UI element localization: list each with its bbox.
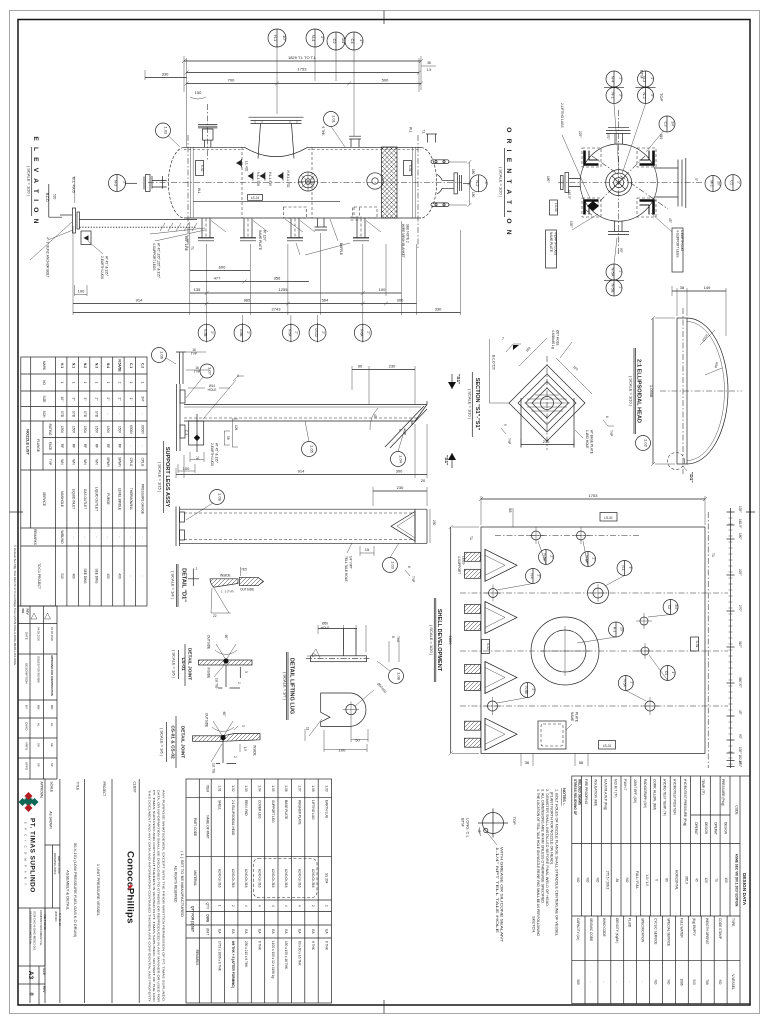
svg-text:NO: NO <box>596 878 600 883</box>
svg-text:1753: 1753 <box>298 67 308 72</box>
svg-text:150 x 150 x 16 THK: 150 x 150 x 16 THK <box>284 941 288 970</box>
svg-text:MANHOLE: MANHOLE <box>60 491 64 507</box>
svg-text:CODE: CODE <box>735 805 739 814</box>
svg-text:1.09: 1.09 <box>324 785 328 791</box>
svg-text:1.5: 1.5 <box>243 568 248 572</box>
balloon N-6A <box>581 552 596 567</box>
svg-text:356: 356 <box>274 276 281 281</box>
svg-text:SUPPORT LEG: SUPPORT LEG <box>271 800 275 823</box>
svg-text:HYDROTEST PRESSURE (Psig): HYDROTEST PRESSURE (Psig) <box>683 779 687 826</box>
svg-text:6 THK: 6 THK <box>258 941 262 951</box>
svg-text:E L E V A T I O N: E L E V A T I O N <box>32 136 39 225</box>
svg-text:2": 2" <box>592 558 596 561</box>
svg-text:N-5A: N-5A <box>622 679 626 687</box>
svg-text:NO: NO <box>586 878 590 883</box>
svg-text:162.5°: 162.5° <box>738 519 742 529</box>
svg-text:270°: 270° <box>738 605 742 612</box>
svg-text:1.08: 1.08 <box>397 672 402 681</box>
svg-text:THERMOWELL: THERMOWELL <box>129 488 133 511</box>
dim 180/180 <box>448 160 471 207</box>
svg-text:1/4" NPT: 1/4" NPT <box>349 556 353 569</box>
svg-text:3": 3" <box>650 94 654 97</box>
part list table <box>186 779 332 1003</box>
svg-text:FIRE PROOFING: FIRE PROOFING <box>584 779 588 805</box>
svg-text:2": 2" <box>321 331 325 334</box>
svg-text:2: 2 <box>233 756 237 758</box>
svg-text:SHELL DEVELOPMENT: SHELL DEVELOPMENT <box>436 609 442 672</box>
svg-text:N-3: N-3 <box>114 180 119 187</box>
svg-text:1.05: 1.05 <box>271 785 275 791</box>
dim 1896 left <box>450 527 452 753</box>
label LS-01 bottom <box>599 741 616 750</box>
svg-text:6: 6 <box>605 416 609 418</box>
svg-text:-: - <box>641 981 645 982</box>
svg-text:1.01: 1.01 <box>332 115 337 124</box>
svg-text:3/4": 3/4" <box>671 121 675 127</box>
svg-text:COVER LEG: COVER LEG <box>258 800 262 819</box>
svg-text:520: 520 <box>53 194 57 200</box>
svg-text:( SCALE = 1/10 ): ( SCALE = 1/10 ) <box>468 389 473 420</box>
balloon 1.01 <box>324 112 339 127</box>
svg-text:LIFTING LUG: LIFTING LUG <box>311 800 315 820</box>
svg-text:510: 510 <box>692 979 696 985</box>
svg-text:6: 6 <box>398 429 402 431</box>
svg-text:H.1: H.1 <box>60 363 64 368</box>
svg-text:CODE STAMP: CODE STAMP <box>718 918 722 939</box>
svg-text:IND-F-20-12: IND-F-20-12 <box>43 914 47 930</box>
svg-text:N-6B: N-6B <box>239 329 243 336</box>
svg-text:ALL RIGHTS RESERVED: ALL RIGHTS RESERVED <box>174 866 178 904</box>
svg-text:45°: 45° <box>668 218 672 224</box>
svg-text:819: 819 <box>659 134 663 140</box>
balloon H-1 <box>609 622 624 637</box>
svg-text:P.W.H.T: P.W.H.T <box>623 779 627 791</box>
label S-02 <box>196 161 204 176</box>
svg-text:SECTION "S1"-"S1": SECTION "S1"-"S1" <box>474 378 480 431</box>
dim 230 lower <box>373 490 427 492</box>
svg-text:1": 1" <box>129 398 133 401</box>
svg-text:-: - <box>106 536 110 537</box>
svg-text:4: 4 <box>271 905 275 907</box>
svg-text:1.09: 1.09 <box>218 493 223 502</box>
svg-text:1.5: 1.5 <box>427 68 432 72</box>
svg-text:MATERIAL: MATERIAL <box>193 870 197 886</box>
svg-text:STD: STD <box>60 411 64 418</box>
label LS-01 <box>248 195 263 201</box>
nozzle N-5B <box>488 701 498 711</box>
shell seam dashes <box>184 148 421 150</box>
svg-text:C4: C4 <box>350 38 355 44</box>
svg-text:N-5B: N-5B <box>611 283 616 292</box>
nozzle 204 riser <box>204 140 211 147</box>
nozzle N-5A <box>645 701 655 711</box>
wire mesh hatch band <box>382 147 398 218</box>
balloon 1.07 <box>200 364 214 378</box>
svg-text:330: 330 <box>435 307 442 312</box>
svg-text:1: 1 <box>140 382 144 384</box>
svg-text:RF: RF <box>60 444 64 448</box>
svg-text:MAY 04, 2020: MAY 04, 2020 <box>57 856 61 874</box>
svg-text:2": 2" <box>210 331 214 334</box>
manway neck <box>258 124 294 159</box>
svg-text:4-SUPPORT LEGS: 4-SUPPORT LEGS <box>676 230 680 258</box>
svg-text:2": 2" <box>95 398 99 401</box>
svg-text:( SCALE = 1/20 ): ( SCALE = 1/20 ) <box>499 167 504 198</box>
svg-text:1: 1 <box>60 382 64 384</box>
balloon N-1 <box>617 561 632 576</box>
svg-text:N-6A: N-6A <box>359 329 363 337</box>
support legs <box>198 219 369 241</box>
svg-text:270°: 270° <box>606 133 610 140</box>
svg-text:3": 3" <box>83 398 87 401</box>
svg-text:90: 90 <box>358 364 363 369</box>
svg-text:-: - <box>140 413 144 414</box>
svg-text:-: - <box>615 981 619 982</box>
svg-text:S-02: S-02 <box>200 165 204 172</box>
revision strip <box>18 606 57 779</box>
svg-text:A240-Gr-316: A240-Gr-316 <box>231 869 235 888</box>
svg-text:LONG. C.L: LONG. C.L <box>466 818 471 839</box>
svg-text:SH: SH <box>37 743 41 747</box>
svg-text:FULL / FULL: FULL / FULL <box>635 871 639 889</box>
svg-text:INSIDE: INSIDE <box>220 574 231 578</box>
balloon N-6B <box>539 550 554 565</box>
svg-text:7029-CHG-V-DWG-MED11-001: 7029-CHG-V-DWG-MED11-001 <box>33 911 37 951</box>
svg-text:2-LIFTING LUGS: 2-LIFTING LUGS <box>560 103 564 128</box>
svg-text:500: 500 <box>382 78 389 83</box>
svg-text:STD: STD <box>95 411 99 418</box>
svg-text:VRFD: VRFD <box>25 742 29 751</box>
svg-text:BTM: BTM <box>461 818 466 826</box>
svg-text:150#: 150# <box>72 426 76 433</box>
svg-text:4-EARTH LUGS: 4-EARTH LUGS <box>554 232 558 255</box>
svg-text:JOB NO.: JOB NO. <box>54 911 58 922</box>
svg-text:O R I E N T A T I O N: O R I E N T A T I O N <box>505 127 512 236</box>
svg-text:S-02: S-02 <box>486 643 490 650</box>
svg-text:JOINT EFF. (SH): JOINT EFF. (SH) <box>633 779 637 803</box>
right seam lines <box>413 147 416 218</box>
svg-text:CORR. ALLOW. (MM): CORR. ALLOW. (MM) <box>653 779 657 810</box>
svg-text:DETAIL JOINT: DETAIL JOINT <box>187 648 193 680</box>
svg-text:H.H.L.L 732: H.H.L.L 732 <box>286 171 290 188</box>
name plate <box>538 721 566 749</box>
dims below <box>73 221 461 315</box>
svg-text:6000#: 6000# <box>140 425 144 434</box>
svg-text:225°: 225° <box>738 569 742 576</box>
svg-text:LIQUID INLET: LIQUID INLET <box>72 489 76 510</box>
svg-text:TO C.L PROJECT: TO C.L PROJECT <box>37 563 41 589</box>
svg-text:TYP: TYP <box>48 459 52 465</box>
svg-text:DESCRIPTION: DESCRIPTION <box>25 663 29 684</box>
svg-text:A3: A3 <box>27 971 34 980</box>
svg-text:CAPACITY (Ltr): CAPACITY (Ltr) <box>576 918 580 940</box>
angle ruler <box>730 508 732 768</box>
svg-text:RF: RF <box>95 444 99 448</box>
svg-text:TOP: TOP <box>512 817 517 825</box>
svg-text:FACE: FACE <box>48 442 52 450</box>
head lifting lugs <box>431 160 449 164</box>
svg-text:150#: 150# <box>106 426 110 433</box>
svg-text:AL: AL <box>37 723 41 727</box>
svg-text:365.9: 365.9 <box>685 876 689 884</box>
svg-text:-: - <box>140 445 144 446</box>
svg-text:APPROVAL: APPROVAL <box>40 782 44 799</box>
svg-text:A240-Gr-316: A240-Gr-316 <box>284 869 288 888</box>
svg-text:( 1 ) SET TO BE MANUFACTURED: ( 1 ) SET TO BE MANUFACTURED <box>180 851 184 918</box>
lug front view <box>321 693 366 726</box>
svg-text:-: - <box>117 536 121 537</box>
svg-text:8 THK: 8 THK <box>311 941 315 951</box>
svg-text:58: 58 <box>508 508 513 513</box>
vessel shell bottom line <box>184 217 421 219</box>
svg-text:-: - <box>117 413 121 414</box>
svg-text:C4: C4 <box>664 671 668 675</box>
svg-text:NAME PLATE: NAME PLATE <box>258 230 262 250</box>
head skirt <box>677 318 687 464</box>
head ellipse outer <box>687 318 728 464</box>
svg-text:1: 1 <box>217 905 221 907</box>
svg-text:1829 T.L TO T.L: 1829 T.L TO T.L <box>288 55 317 60</box>
svg-text:275.5 / 266.3: 275.5 / 266.3 <box>605 871 609 890</box>
svg-text:DENSITY (Kg/M³): DENSITY (Kg/M³) <box>615 918 619 943</box>
svg-text:3: 3 <box>241 725 245 727</box>
svg-text:SCH: SCH <box>42 411 46 418</box>
manway opening arc in shell <box>245 147 308 156</box>
level markers <box>236 160 242 166</box>
right ellipsoidal head <box>421 147 437 218</box>
svg-text:1255: 1255 <box>279 287 289 292</box>
svg-text:600: 600 <box>219 265 226 270</box>
svg-text:L100 x 100 x 12 x 1198 Lg: L100 x 100 x 12 x 1198 Lg <box>271 941 275 979</box>
svg-text:300: 300 <box>397 298 404 303</box>
svg-text:2:1 ELLIPSOIDAL HEAD: 2:1 ELLIPSOIDAL HEAD <box>231 800 235 836</box>
svg-text:( SCALE = 1/6 ): ( SCALE = 1/6 ) <box>172 650 177 679</box>
svg-text:180: 180 <box>471 169 475 175</box>
balloon N-3 <box>109 175 126 192</box>
svg-text:L.L 432: L.L 432 <box>245 161 249 172</box>
left nozzle <box>569 179 581 187</box>
svg-text:1.03: 1.03 <box>391 561 396 570</box>
svg-text:1": 1" <box>737 181 741 184</box>
svg-text:AS SHOWN: AS SHOWN <box>49 811 53 829</box>
nozzle list table <box>21 357 147 606</box>
svg-text:GAS OUTLET: GAS OUTLET <box>83 489 87 509</box>
left ellipsoidal head <box>168 147 184 218</box>
balloon N-5A <box>618 676 633 691</box>
svg-text:2": 2" <box>650 78 654 81</box>
svg-text:DRAWING DATE: DRAWING DATE <box>53 853 57 875</box>
svg-text:NAME OF PART: NAME OF PART <box>206 815 210 839</box>
svg-text:0: 0 <box>28 992 34 995</box>
svg-text:180°: 180° <box>738 761 742 768</box>
svg-text:N.2: N.2 <box>83 363 87 368</box>
svg-text:C2: C2 <box>332 38 337 44</box>
svg-text:H.L.L 619: H.L.L 619 <box>268 172 272 186</box>
svg-text:149: 149 <box>704 285 711 290</box>
svg-text:1st TIG: 1st TIG <box>212 763 216 774</box>
svg-text:1.06: 1.06 <box>160 351 165 360</box>
svg-text:INSULATION (MM): INSULATION (MM) <box>594 779 598 806</box>
svg-text:3": 3" <box>619 94 623 97</box>
center nozzle projection <box>606 170 632 196</box>
svg-text:225°: 225° <box>578 131 582 138</box>
svg-text:CS-01 & CS-02: CS-01 & CS-02 <box>170 725 176 759</box>
nozzle N-4 <box>489 589 498 598</box>
internal baffle line <box>193 201 340 203</box>
svg-text:4: 4 <box>284 905 288 907</box>
svg-text:4 - 1" 8UNC ANCHOR BOLT: 4 - 1" 8UNC ANCHOR BOLT <box>46 237 50 278</box>
vessel centerline <box>148 182 462 184</box>
label LS-01 top <box>600 513 617 522</box>
head dim 38/149 <box>672 290 726 292</box>
svg-text:4: 4 <box>298 905 302 907</box>
weld symbol <box>506 344 521 352</box>
svg-text:1.08: 1.08 <box>311 785 315 791</box>
svg-text:230: 230 <box>397 485 404 490</box>
earth lug plate <box>176 352 186 384</box>
svg-text:T.L: T.L <box>469 536 473 540</box>
svg-text:DESIGN: DESIGN <box>704 822 708 835</box>
svg-text:126: 126 <box>234 425 238 431</box>
svg-text:965: 965 <box>244 298 251 303</box>
svg-text:-: - <box>602 981 606 982</box>
svg-text:RF: RF <box>72 444 76 448</box>
svg-text:01.06.2020: 01.06.2020 <box>50 627 54 641</box>
svg-text:Ø27 HOLE: Ø27 HOLE <box>556 330 560 346</box>
svg-text:M.A.P/M.A.W.P (Psig): M.A.P/M.A.W.P (Psig) <box>604 779 608 810</box>
svg-text:-: - <box>589 981 593 982</box>
svg-text:AT BASE PLATE: AT BASE PLATE <box>590 430 594 454</box>
svg-text:CHKD: CHKD <box>25 722 29 731</box>
svg-text:4-SUPPORT: 4-SUPPORT <box>457 556 461 574</box>
svg-text:TYPE: TYPE <box>731 918 735 926</box>
svg-text:INSIDE: INSIDE <box>253 745 257 756</box>
center crosshair <box>558 110 702 254</box>
vessel shell top line <box>184 146 421 148</box>
svg-text:B.C.D: B.C.D <box>45 193 49 202</box>
dim 914 300 20 <box>176 474 427 476</box>
right end gusset <box>412 401 427 425</box>
svg-text:3/4": 3/4" <box>674 604 678 610</box>
bottom nozzle <box>615 221 623 232</box>
svg-text:58: 58 <box>579 760 584 765</box>
svg-text:SE: SE <box>50 743 54 747</box>
svg-text:1.0598: 1.0598 <box>649 385 654 398</box>
svg-text:TITLE: TITLE <box>76 782 80 791</box>
svg-text:"S1": "S1" <box>443 455 449 465</box>
svg-text:SERVICE: SERVICE <box>42 492 46 506</box>
svg-text:TYP: TYP <box>191 352 197 356</box>
svg-text:N.3: N.3 <box>95 363 99 368</box>
svg-text:45°: 45° <box>373 414 377 420</box>
svg-text:6: 6 <box>407 566 411 568</box>
svg-text:1: 1 <box>129 382 133 384</box>
svg-text:APPROVED FOR CONSTRUCTION: APPROVED FOR CONSTRUCTION <box>50 655 53 696</box>
svg-text:135°: 135° <box>738 506 742 513</box>
svg-text:2: 2 <box>117 382 121 384</box>
svg-text:NO: NO <box>718 980 722 985</box>
svg-text:TYP: TYP <box>609 430 613 436</box>
svg-text:AL: AL <box>50 723 54 727</box>
svg-text:DATA, OR INFORMATION SHALL BE: DATA, OR INFORMATION SHALL BE DISCLOSED … <box>157 790 161 1002</box>
svg-text:HOLE: HOLE <box>321 626 330 630</box>
svg-text:REV: REV <box>42 986 46 993</box>
svg-text:VENDOR DOCUMENT No.: VENDOR DOCUMENT No. <box>29 911 33 945</box>
svg-text:SIZE: SIZE <box>42 968 46 975</box>
balloon N-5B <box>520 683 535 698</box>
svg-text:230 x 210 x 6 THK: 230 x 210 x 6 THK <box>244 941 248 968</box>
svg-text:120: 120 <box>704 877 708 883</box>
leg gussets <box>211 221 381 233</box>
svg-text:COMPANY DOCUMENT No.: COMPANY DOCUMENT No. <box>39 910 43 946</box>
svg-text:4: 4 <box>244 905 248 907</box>
svg-text:569: 569 <box>576 979 580 985</box>
svg-text:SIZE: SIZE <box>42 395 46 402</box>
svg-text:04.05.2020: 04.05.2020 <box>37 627 41 641</box>
svg-text:RF: RF <box>106 444 110 448</box>
svg-text:C1: C1 <box>730 180 735 186</box>
svg-text:SHELL: SHELL <box>217 800 221 810</box>
svg-text:N-4: N-4 <box>530 573 534 578</box>
svg-text:S-01: S-01 <box>408 165 412 172</box>
svg-text:1086: 1086 <box>679 978 683 985</box>
svg-text:50: 50 <box>355 738 360 743</box>
top nozzle <box>615 134 623 145</box>
base plate edge bars <box>521 398 574 447</box>
svg-text:2: 2 <box>231 905 235 907</box>
svg-text:4. THE LOCATION OF TELL-TALE: 4. THE LOCATION OF TELL-TALE HOLE ON NOZ… <box>536 789 541 936</box>
svg-text:-: - <box>129 575 133 576</box>
svg-text:2": 2" <box>619 287 623 290</box>
svg-text:N.4: N.4 <box>106 363 110 368</box>
svg-text:300: 300 <box>396 469 403 474</box>
svg-text:4-SUPPORT LEGS: 4-SUPPORT LEGS <box>152 243 156 271</box>
svg-text:150#: 150# <box>60 426 64 433</box>
svg-text:NO: NO <box>42 380 46 385</box>
svg-text:APPD: APPD <box>25 762 29 771</box>
manway H-1 <box>531 617 599 685</box>
svg-text:1: 1 <box>72 382 76 384</box>
svg-text:180°: 180° <box>738 533 742 540</box>
svg-text:90°: 90° <box>619 248 623 254</box>
svg-text:ISSUED FOR REVIEW: ISSUED FOR REVIEW <box>37 656 41 683</box>
coupling C2 <box>640 617 648 625</box>
svg-text:STD: STD <box>83 411 87 418</box>
svg-text:-: - <box>106 413 110 414</box>
svg-text:1: 1 <box>83 382 87 384</box>
head vertical dim <box>652 318 654 464</box>
svg-text:58: 58 <box>226 436 230 440</box>
svg-text:N-5A: N-5A <box>287 329 291 337</box>
svg-text:LS-01: LS-01 <box>603 744 612 748</box>
svg-text:6000#: 6000# <box>129 425 133 434</box>
svg-text:90°: 90° <box>738 734 742 740</box>
svg-text:DESIGN: DESIGN <box>724 822 728 835</box>
svg-text:M.D.M.T (°F): M.D.M.T (°F) <box>613 779 617 797</box>
svg-text:REV: REV <box>26 609 30 615</box>
svg-text:2": 2" <box>619 78 623 81</box>
svg-text:N-1: N-1 <box>621 565 625 570</box>
svg-text:8: 8 <box>391 636 395 638</box>
svg-text:OUTSIDE: OUTSIDE <box>207 635 211 649</box>
svg-text:SP: SP <box>37 763 41 767</box>
svg-text:REMARKS: REMARKS <box>33 529 37 545</box>
vortex breaker circle <box>367 173 383 189</box>
svg-text:TYP: TYP <box>411 576 415 582</box>
lower leg <box>176 507 180 547</box>
svg-text:45°: 45° <box>738 710 742 716</box>
svg-text:60 x 60 x 16 THK: 60 x 60 x 16 THK <box>298 941 302 966</box>
